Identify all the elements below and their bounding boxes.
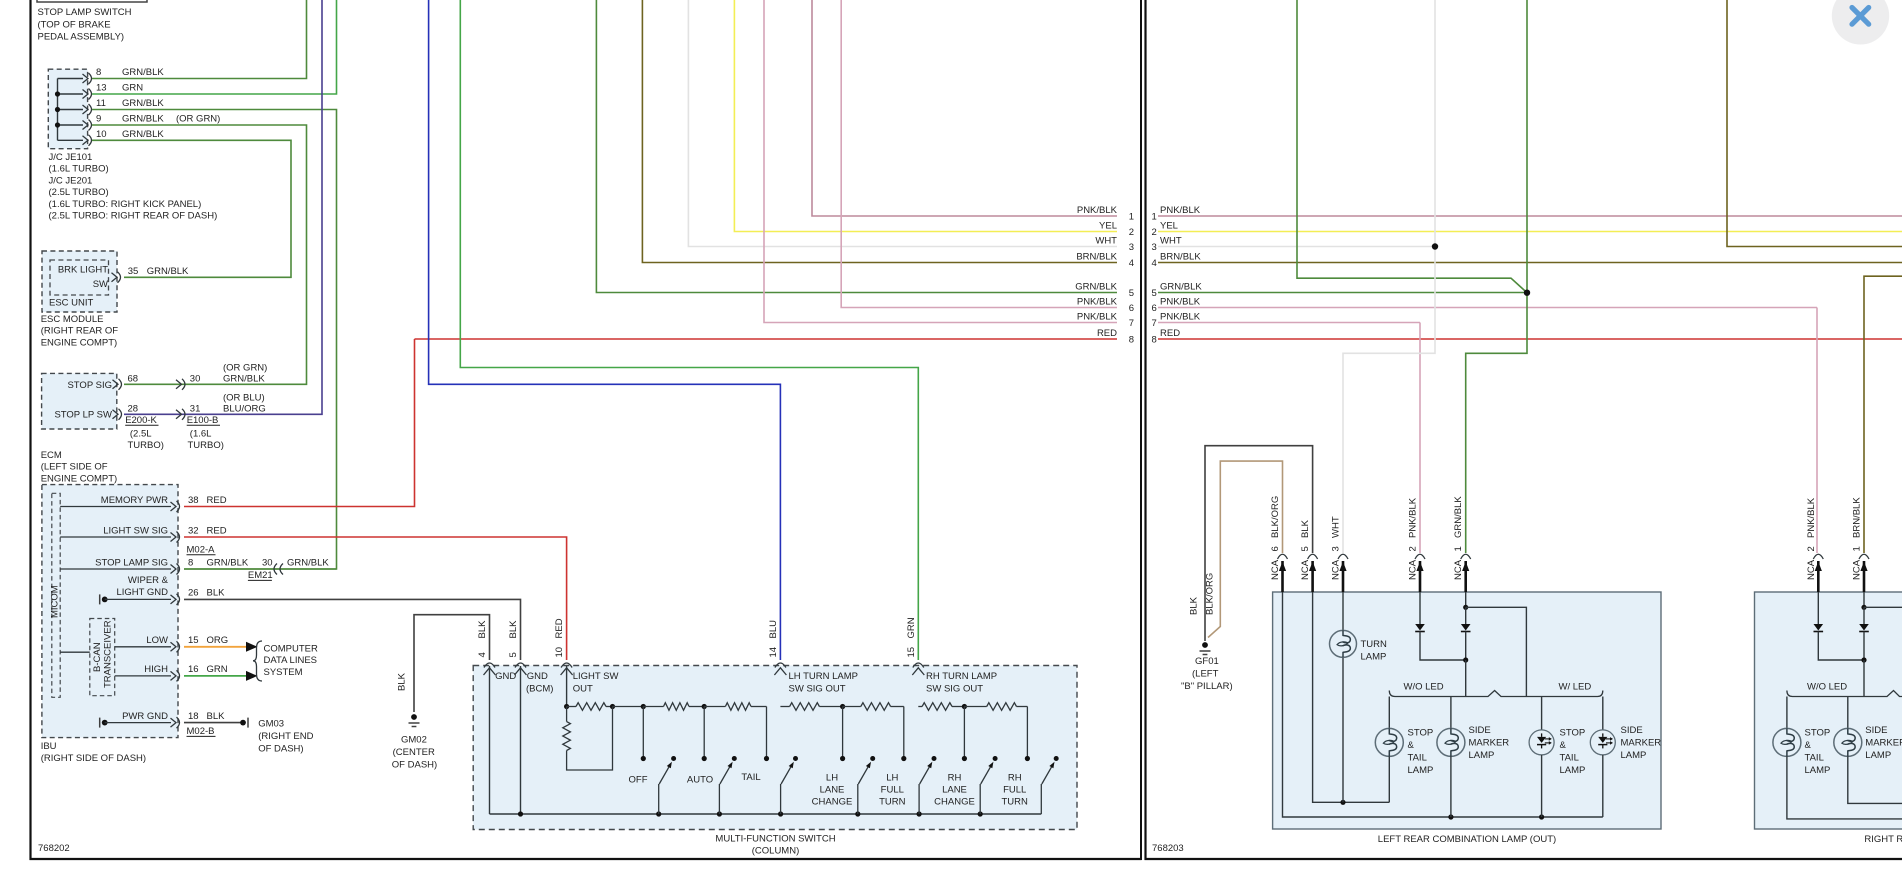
svg-text:WHT: WHT <box>1160 235 1182 246</box>
wire BRN/BLK from top corner to right edge <box>1727 0 1902 247</box>
svg-text:2: 2 <box>1129 227 1134 238</box>
svg-text:TAIL: TAIL <box>741 772 760 783</box>
svg-text:(2.5L TURBO: RIGHT REAR OF DAS: (2.5L TURBO: RIGHT REAR OF DASH) <box>49 211 218 222</box>
svg-text:68: 68 <box>128 373 139 384</box>
svg-text:NCA: NCA <box>1453 559 1464 580</box>
svg-text:RED: RED <box>554 618 565 638</box>
wire row6 PNK/BLK down to right lamp pin2 <box>1816 308 1818 554</box>
wire row5 GRN/BLK left page <box>596 0 1117 293</box>
svg-text:PNK/BLK: PNK/BLK <box>1806 497 1817 538</box>
J/C JE101 internal bus <box>57 79 59 141</box>
TAIL switch <box>766 707 768 759</box>
svg-text:LAMP: LAMP <box>1621 750 1647 761</box>
svg-text:GRN/BLK: GRN/BLK <box>1453 496 1464 538</box>
svg-text:2: 2 <box>1152 227 1157 238</box>
svg-text:6: 6 <box>1270 546 1281 551</box>
svg-text:SW SIG OUT: SW SIG OUT <box>926 684 983 695</box>
svg-text:NCA: NCA <box>1270 559 1281 580</box>
svg-text:11: 11 <box>96 98 106 109</box>
svg-text:GRN/BLK: GRN/BLK <box>1160 281 1202 292</box>
svg-text:BLK: BLK <box>508 620 519 639</box>
svg-text:E200-K: E200-K <box>125 415 157 426</box>
svg-text:TURN: TURN <box>879 796 906 807</box>
svg-text:NCA: NCA <box>1331 559 1342 580</box>
OFF switch <box>642 707 644 759</box>
svg-text:RIGHT REAR COMBINATION LAMP (O: RIGHT REAR COMBINATION LAMP (OUT) <box>1864 834 1902 845</box>
wire light sw sig RED to switch pin10 <box>184 537 567 660</box>
svg-text:BRN/BLK: BRN/BLK <box>1160 251 1201 262</box>
wire row8 RED left page <box>415 338 1118 340</box>
stop lamp switch box (cut off at top) <box>37 0 147 2</box>
ground GM02 <box>411 714 417 720</box>
side marker LED w/ led <box>1602 697 1604 731</box>
svg-text:OF DASH): OF DASH) <box>258 743 303 754</box>
svg-text:GRN/BLK: GRN/BLK <box>122 114 164 125</box>
wire row8 RED right page <box>1158 338 1902 340</box>
svg-text:LH: LH <box>826 772 838 783</box>
svg-text:COMPUTER: COMPUTER <box>264 643 319 654</box>
svg-text:GRN: GRN <box>906 617 917 638</box>
switch top connectors <box>484 663 495 668</box>
svg-text:NCA: NCA <box>1806 559 1817 580</box>
IBU box <box>42 485 178 738</box>
svg-text:BLU/ORG: BLU/ORG <box>223 403 266 414</box>
svg-text:4: 4 <box>477 652 488 657</box>
wire BLK/ORG from GF01 to left lamp pin6 <box>1208 461 1283 637</box>
svg-text:(RIGHT REAR OF: (RIGHT REAR OF <box>41 326 119 337</box>
svg-text:(OR GRN): (OR GRN) <box>223 363 267 374</box>
svg-text:GM03: GM03 <box>258 718 284 729</box>
svg-text:768203: 768203 <box>1152 843 1184 854</box>
svg-text:PNK/BLK: PNK/BLK <box>1077 296 1118 307</box>
svg-text:28: 28 <box>128 403 139 414</box>
svg-text:PNK/BLK: PNK/BLK <box>1160 205 1201 216</box>
svg-text:(RIGHT SIDE OF DASH): (RIGHT SIDE OF DASH) <box>41 753 146 764</box>
svg-text:38: 38 <box>188 495 199 506</box>
svg-text:BLK: BLK <box>397 672 408 691</box>
left lamp pin6 to ground bus <box>1283 592 1603 817</box>
svg-text:FULL: FULL <box>881 784 904 795</box>
left lamp pin connectors <box>1278 554 1288 559</box>
svg-text:LAMP: LAMP <box>1865 750 1891 761</box>
svg-text:5: 5 <box>1129 288 1134 299</box>
svg-text:LIGHT SW SIG: LIGHT SW SIG <box>103 525 168 536</box>
svg-text:YEL: YEL <box>1160 220 1178 231</box>
svg-text:(1.6L TURBO: RIGHT KICK PANEL): (1.6L TURBO: RIGHT KICK PANEL) <box>49 199 202 210</box>
ECM pin connectors <box>113 380 119 389</box>
svg-text:GRN/BLK: GRN/BLK <box>122 67 164 78</box>
LH resistors <box>780 706 789 708</box>
svg-text:31: 31 <box>190 403 201 414</box>
svg-text:GND: GND <box>495 671 516 682</box>
svg-text:LEFT REAR COMBINATION LAMP (OU: LEFT REAR COMBINATION LAMP (OUT) <box>1378 834 1556 845</box>
turn lamp bulb <box>1330 630 1357 657</box>
wire pin13 GRN to top <box>92 0 337 94</box>
svg-text:15: 15 <box>906 647 917 658</box>
right page border <box>1144 0 1146 860</box>
svg-text:(RIGHT END: (RIGHT END <box>258 731 313 742</box>
svg-text:8: 8 <box>188 557 193 568</box>
wire memory pwr RED to row8 <box>184 339 415 507</box>
svg-text:RED: RED <box>1097 328 1117 339</box>
svg-text:BLK: BLK <box>1300 519 1311 538</box>
svg-text:EM21: EM21 <box>248 570 273 581</box>
IBU internal stubs <box>60 506 171 508</box>
svg-text:GRN/BLK: GRN/BLK <box>207 557 249 568</box>
svg-text:LAMP: LAMP <box>1469 750 1495 761</box>
svg-text:SIDE: SIDE <box>1469 725 1491 736</box>
svg-text:IBU: IBU <box>41 741 57 752</box>
svg-text:W/O LED: W/O LED <box>1807 681 1847 692</box>
svg-text:BLU: BLU <box>768 620 779 639</box>
switch pin5 vertical to bus <box>520 666 522 814</box>
wire stop lamp sig GRN/BLK <box>184 568 337 570</box>
svg-text:OUT: OUT <box>573 684 593 695</box>
wire BLU/ORG vertical to top <box>124 0 322 414</box>
close button <box>1832 0 1889 45</box>
wire BLK from GF01 to left lamp pin5 <box>1205 446 1313 641</box>
wire row3 WHT right page <box>1158 246 1435 248</box>
svg-text:CHANGE: CHANGE <box>812 796 853 807</box>
right lamp pin2 diode branch <box>1817 592 1819 624</box>
svg-text:10: 10 <box>554 647 565 658</box>
J/C pin connectors <box>83 74 89 83</box>
svg-text:LAMP: LAMP <box>1408 765 1434 776</box>
svg-text:STOP: STOP <box>1560 727 1586 738</box>
svg-text:(2.5L: (2.5L <box>130 429 152 440</box>
LH FULL TURN switch <box>918 784 920 814</box>
svg-text:RED: RED <box>1160 328 1180 339</box>
IBU pwr ground symbol <box>99 718 101 728</box>
svg-text:(1.6L TURBO): (1.6L TURBO) <box>49 164 109 175</box>
svg-text:GRN/BLK: GRN/BLK <box>223 373 265 384</box>
wire wiper gnd BLK to switch pin5 <box>184 599 521 660</box>
svg-text:5: 5 <box>1152 288 1157 299</box>
svg-text:(1.6L: (1.6L <box>190 429 212 440</box>
svg-text:6: 6 <box>1129 303 1134 314</box>
right rear combination lamp box <box>1755 592 1902 829</box>
svg-text:LH: LH <box>886 772 898 783</box>
svg-text:8: 8 <box>96 67 101 78</box>
svg-text:BRK LIGHT: BRK LIGHT <box>58 264 108 275</box>
wire pin10 GRN/BLK down to ESC brk light sw <box>92 140 291 277</box>
svg-text:3: 3 <box>1129 242 1134 253</box>
svg-text:STOP LAMP SIG: STOP LAMP SIG <box>95 557 168 568</box>
svg-text:TURBO): TURBO) <box>128 440 164 451</box>
svg-text:7: 7 <box>1152 318 1157 329</box>
svg-text:BLK: BLK <box>207 588 226 599</box>
RH FULL TURN switch <box>1040 784 1042 814</box>
svg-text:(BCM): (BCM) <box>526 684 553 695</box>
svg-text:(LEFT SIDE OF: (LEFT SIDE OF <box>41 462 108 473</box>
wire row6 PNK/BLK right page <box>1158 307 1817 309</box>
multi-function switch box <box>473 666 1077 830</box>
svg-text:5: 5 <box>508 652 519 657</box>
wire BLK to GM02 ground <box>414 615 490 712</box>
svg-text:J/C JE201: J/C JE201 <box>49 175 93 186</box>
svg-text:RED: RED <box>207 525 227 536</box>
left lamp pin1 diode branch <box>1465 592 1467 607</box>
svg-text:ENGINE COMPT): ENGINE COMPT) <box>41 473 118 484</box>
svg-text:LOW: LOW <box>146 635 168 646</box>
svg-text:RH TURN LAMP: RH TURN LAMP <box>926 671 997 682</box>
svg-text:MICOM: MICOM <box>50 585 61 618</box>
svg-text:BLK/ORG: BLK/ORG <box>1270 496 1281 538</box>
wire BRN/BLK from right edge down to right lamp pin1 <box>1864 276 1902 553</box>
wire GRN pin15 horizontal <box>460 0 918 660</box>
svg-text:M02-A: M02-A <box>187 545 216 556</box>
wire high GRN with arrow <box>184 675 246 677</box>
B-CAN TRANSCEIVER sub-box <box>90 619 115 696</box>
svg-text:768202: 768202 <box>38 843 70 854</box>
svg-text:PNK/BLK: PNK/BLK <box>1077 205 1118 216</box>
svg-text:SIDE: SIDE <box>1621 725 1643 736</box>
junction block J/C JE101 <box>48 69 87 149</box>
svg-text:&: & <box>1805 740 1812 751</box>
svg-text:PNK/BLK: PNK/BLK <box>1077 311 1118 322</box>
svg-text:1: 1 <box>1129 212 1134 223</box>
wire BLU pin14 horizontal <box>429 0 781 660</box>
wire row1 PNK/BLK right page <box>1158 215 1902 217</box>
svg-text:LANE: LANE <box>820 784 845 795</box>
left rear combination lamp box <box>1273 592 1661 829</box>
svg-text:(COLUMN): (COLUMN) <box>752 845 800 856</box>
svg-text:WHT: WHT <box>1095 235 1117 246</box>
svg-text:4: 4 <box>1152 258 1157 269</box>
left lamp pin2 diode branch <box>1419 592 1421 624</box>
svg-text:GRN/BLK: GRN/BLK <box>147 266 189 277</box>
svg-text:MULTI-FUNCTION SWITCH: MULTI-FUNCTION SWITCH <box>715 834 835 845</box>
wire row5 GRN/BLK right page <box>1158 292 1527 294</box>
svg-text:LIGHT SW: LIGHT SW <box>573 671 619 682</box>
svg-text:M02-B: M02-B <box>187 726 215 737</box>
switch pin10 vertical <box>566 666 568 707</box>
wire row4 BRN/BLK right page <box>1158 262 1902 264</box>
svg-text:&: & <box>1408 740 1415 751</box>
svg-text:PEDAL ASSEMBLY): PEDAL ASSEMBLY) <box>38 32 125 43</box>
svg-text:(2.5L TURBO): (2.5L TURBO) <box>49 187 109 198</box>
wire pin11 GRN/BLK down to stop lamp sig row <box>92 110 337 570</box>
svg-text:LAMP: LAMP <box>1805 765 1831 776</box>
IBU wiper ground symbol <box>99 594 101 604</box>
svg-text:&: & <box>1560 740 1567 751</box>
svg-text:WIPER &: WIPER & <box>128 575 169 586</box>
svg-text:BRN/BLK: BRN/BLK <box>1852 497 1863 538</box>
svg-text:ESC UNIT: ESC UNIT <box>49 298 94 309</box>
right lamp pin1 diode branch <box>1863 592 1865 607</box>
svg-text:HIGH: HIGH <box>144 664 168 675</box>
svg-text:"B" PILLAR): "B" PILLAR) <box>1181 681 1233 692</box>
svg-text:GM02: GM02 <box>401 735 427 746</box>
svg-text:LH TURN LAMP: LH TURN LAMP <box>789 671 859 682</box>
wire row7 PNK/BLK right page <box>1158 322 1420 324</box>
svg-text:7: 7 <box>1129 318 1134 329</box>
svg-text:TRANSCEIVER: TRANSCEIVER <box>103 620 114 688</box>
wire WHT vertical with jog to left lamp pin3 <box>1343 0 1435 553</box>
svg-text:B-CAN: B-CAN <box>92 642 103 672</box>
svg-text:E100-B: E100-B <box>187 415 219 426</box>
wire low ORG with arrow <box>184 646 246 648</box>
svg-text:RH: RH <box>948 772 962 783</box>
MICOM sub-box <box>52 493 60 697</box>
EM21 inline connector <box>274 564 277 575</box>
resistor ladder light switch <box>567 706 576 708</box>
ECM box <box>42 373 117 429</box>
wire GRN/BLK vertical through row5 junction <box>1466 0 1527 553</box>
svg-text:SW: SW <box>93 279 108 290</box>
row3 junction dot <box>1432 243 1438 249</box>
svg-text:30: 30 <box>190 373 201 384</box>
svg-text:8: 8 <box>1152 335 1157 346</box>
svg-text:BLK: BLK <box>1189 596 1200 615</box>
svg-text:GRN: GRN <box>122 83 143 94</box>
svg-text:YEL: YEL <box>1099 220 1117 231</box>
svg-text:GND: GND <box>527 671 548 682</box>
svg-text:15: 15 <box>188 635 199 646</box>
wire row3 WHT left page <box>688 0 1117 247</box>
svg-text:NCA: NCA <box>1408 559 1419 580</box>
svg-text:5: 5 <box>1300 546 1311 551</box>
svg-text:NCA: NCA <box>1852 559 1863 580</box>
svg-text:PNK/BLK: PNK/BLK <box>1160 311 1201 322</box>
svg-text:MARKER: MARKER <box>1621 737 1662 748</box>
svg-text:TURN: TURN <box>1361 639 1388 650</box>
svg-text:WHT: WHT <box>1331 516 1342 538</box>
svg-text:30: 30 <box>262 557 273 568</box>
J/C bus junction dots <box>55 91 60 96</box>
svg-text:BRN/BLK: BRN/BLK <box>1076 251 1117 262</box>
svg-text:GRN/BLK: GRN/BLK <box>287 557 329 568</box>
wire pwr gnd BLK to GM03 <box>184 722 243 724</box>
svg-text:3: 3 <box>1331 546 1342 551</box>
svg-text:TAIL: TAIL <box>1408 752 1427 763</box>
svg-text:(TOP OF BRAKE: (TOP OF BRAKE <box>38 19 111 30</box>
wire GRN/BLK from top with diagonal to row5 junction <box>1297 0 1527 293</box>
svg-text:1: 1 <box>1852 546 1863 551</box>
svg-text:TURN: TURN <box>1002 796 1029 807</box>
svg-text:PNK/BLK: PNK/BLK <box>1160 296 1201 307</box>
left lamp pin3 to turn lamp <box>1342 592 1344 630</box>
ESC unit box <box>42 251 117 312</box>
svg-text:FULL: FULL <box>1003 784 1026 795</box>
wire row6 PNK/BLK left page <box>841 0 1117 308</box>
svg-text:STOP: STOP <box>1408 727 1434 738</box>
svg-text:SIDE: SIDE <box>1865 725 1887 736</box>
wire row2 YEL right page <box>1158 231 1902 233</box>
RH resistors <box>918 706 922 708</box>
svg-text:DATA LINES: DATA LINES <box>264 655 318 666</box>
svg-text:18: 18 <box>188 711 199 722</box>
ground GF01 <box>1202 642 1208 648</box>
right side marker lamp bulb <box>1847 697 1849 729</box>
svg-text:SYSTEM: SYSTEM <box>264 667 303 678</box>
wire row7 PNK/BLK left page <box>764 0 1117 323</box>
svg-text:MARKER: MARKER <box>1865 737 1902 748</box>
wire row2 YEL left page <box>734 0 1117 232</box>
svg-text:OF DASH): OF DASH) <box>392 760 437 771</box>
svg-text:ENGINE COMPT): ENGINE COMPT) <box>41 337 118 348</box>
svg-text:1: 1 <box>1152 212 1157 223</box>
W/O LED W/ LED brace left lamp <box>1389 691 1603 697</box>
shunt resistor <box>566 707 568 722</box>
svg-text:STOP LAMP SWITCH: STOP LAMP SWITCH <box>38 7 132 18</box>
svg-text:32: 32 <box>188 525 199 536</box>
svg-text:35: 35 <box>128 266 139 277</box>
svg-text:14: 14 <box>768 647 779 658</box>
W/O LED brace right lamp <box>1787 691 1902 697</box>
svg-text:6: 6 <box>1152 303 1157 314</box>
svg-text:BLK: BLK <box>477 620 488 639</box>
svg-text:16: 16 <box>188 664 199 675</box>
wire row1 PNK/BLK left page <box>812 0 1117 216</box>
LH LANE CHANGE switch <box>842 707 844 759</box>
svg-text:LIGHT GND: LIGHT GND <box>116 587 168 598</box>
right lamp pin connectors <box>1813 554 1823 559</box>
svg-text:3: 3 <box>1152 242 1157 253</box>
computer data lines brace <box>253 641 262 681</box>
row5 junction dot <box>1524 290 1530 296</box>
wire row7 PNK/BLK down to left lamp pin2 <box>1419 323 1421 554</box>
svg-text:STOP: STOP <box>1805 727 1831 738</box>
svg-text:LAMP: LAMP <box>1361 652 1387 663</box>
svg-text:ECM: ECM <box>41 450 62 461</box>
left lamp pin5 to inner bus <box>1313 592 1390 802</box>
svg-text:PNK/BLK: PNK/BLK <box>1408 497 1419 538</box>
IBU pin connectors <box>171 502 177 511</box>
svg-text:PWR GND: PWR GND <box>122 711 168 722</box>
BRK LIGHT SW inner box <box>50 260 109 295</box>
svg-text:TAIL: TAIL <box>1805 752 1824 763</box>
AUTO switch <box>703 707 705 759</box>
RH LANE CHANGE switch <box>963 707 965 759</box>
switch ground bus <box>490 813 1042 815</box>
stop & tail LED w/ led <box>1541 697 1543 731</box>
ground splice GM03 <box>240 720 246 726</box>
svg-text:GRN/BLK: GRN/BLK <box>122 98 164 109</box>
svg-text:GRN: GRN <box>207 664 228 675</box>
svg-text:STOP SIG: STOP SIG <box>67 380 112 391</box>
svg-text:SW SIG OUT: SW SIG OUT <box>789 684 846 695</box>
svg-text:GRN/BLK: GRN/BLK <box>122 129 164 140</box>
svg-text:8: 8 <box>1129 335 1134 346</box>
svg-text:TURBO): TURBO) <box>188 440 224 451</box>
svg-text:1: 1 <box>1453 546 1464 551</box>
svg-text:RED: RED <box>207 495 227 506</box>
svg-text:ORG: ORG <box>207 635 229 646</box>
svg-text:(OR BLU): (OR BLU) <box>223 393 265 404</box>
left page border <box>29 0 31 860</box>
svg-text:LAMP: LAMP <box>1560 765 1586 776</box>
ESC pin 35 connector <box>112 273 118 282</box>
svg-text:GF01: GF01 <box>1195 656 1219 667</box>
svg-text:BLK: BLK <box>207 711 226 722</box>
svg-text:BLK/ORG: BLK/ORG <box>1205 573 1216 615</box>
wire pin9 GRN/BLK down to ECM stop sig <box>92 125 307 384</box>
svg-text:9: 9 <box>96 114 101 125</box>
svg-text:13: 13 <box>96 83 107 94</box>
svg-text:AUTO: AUTO <box>687 775 713 786</box>
svg-text:10: 10 <box>96 129 107 140</box>
svg-text:MEMORY PWR: MEMORY PWR <box>101 495 168 506</box>
svg-text:GRN/BLK: GRN/BLK <box>1075 281 1117 292</box>
svg-text:(CENTER: (CENTER <box>393 747 435 758</box>
svg-text:NCA: NCA <box>1300 559 1311 580</box>
wire row4 BRN/BLK left page <box>642 0 1117 263</box>
svg-text:W/ LED: W/ LED <box>1559 681 1592 692</box>
wire pin8 GRN/BLK to top <box>92 0 307 79</box>
svg-text:2: 2 <box>1806 546 1817 551</box>
side marker lamp bulb w/o led <box>1450 697 1452 729</box>
